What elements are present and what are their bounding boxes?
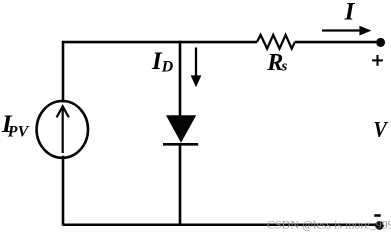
svg-text:V: V bbox=[373, 117, 388, 142]
node: bottom output terminal dot bbox=[375, 221, 384, 230]
node: top output terminal dot bbox=[376, 38, 385, 47]
resistor Rs zigzag bbox=[257, 35, 295, 49]
wire: left vertical upper (corner to current source top) bbox=[62, 41, 65, 103]
wire: diode branch lower bbox=[179, 143, 182, 225]
current I_D arrow (down) bbox=[195, 48, 197, 78]
svg-text:I: I bbox=[344, 0, 356, 26]
diode cathode bar bbox=[163, 143, 198, 146]
wire: top horizontal from left corner to resistor bbox=[63, 41, 257, 44]
minus sign bbox=[374, 214, 380, 217]
diode D triangle bbox=[166, 115, 196, 143]
current I arrow (right) bbox=[322, 29, 361, 31]
wire: bottom horizontal rail bbox=[63, 223, 380, 226]
wire: resistor to output terminal bbox=[295, 41, 378, 44]
wire: diode branch upper bbox=[179, 41, 182, 116]
plus sign bbox=[372, 55, 383, 66]
wire: left vertical lower (current source bottom to bottom rail) bbox=[62, 156, 65, 226]
svg-text:D: D bbox=[161, 59, 174, 76]
svg-text:CSDN @less is more_9999: CSDN @less is more_9999 bbox=[267, 218, 391, 232]
current source arrow (up) bbox=[57, 106, 69, 153]
current source I_PV circle bbox=[37, 101, 88, 158]
svg-text:PV: PV bbox=[7, 124, 30, 141]
svg-text:s: s bbox=[281, 59, 288, 75]
